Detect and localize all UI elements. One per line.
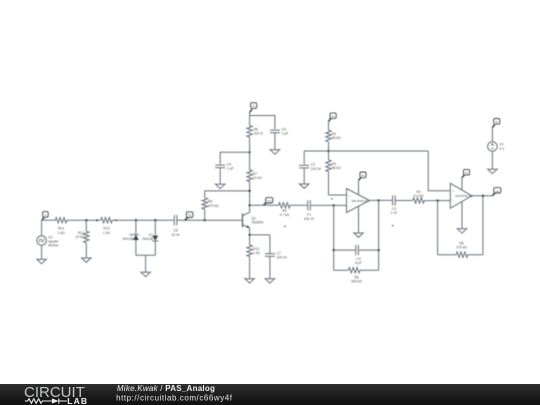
node flag Tin — [185, 212, 193, 220]
wire R7 top — [249, 152, 251, 170]
wire emitter — [249, 228, 251, 235]
node junction op1 output — [377, 199, 379, 201]
svg-text:100 nF: 100 nF — [311, 167, 322, 171]
svg-text:10 kΩ: 10 kΩ — [75, 235, 84, 239]
node junction emitter — [248, 234, 250, 236]
node junction R12 — [85, 219, 87, 221]
ground C2 — [299, 183, 310, 188]
ground C5 — [215, 184, 226, 189]
svg-text:1N4148: 1N4148 — [122, 237, 133, 241]
svg-text:−: − — [349, 204, 351, 208]
wire R12 bottom — [85, 243, 87, 258]
svg-text:out: out — [495, 189, 499, 193]
wire R6fb row — [334, 269, 379, 271]
resistor R9 — [279, 203, 291, 208]
node flag Tho — [263, 198, 272, 206]
ground R12 — [81, 257, 92, 262]
node flag 9V (R6 top) — [250, 103, 257, 113]
wire op2 ground pin — [461, 202, 463, 229]
svg-text:MCP6L92: MCP6L92 — [352, 199, 370, 203]
wire op1 output — [370, 199, 393, 201]
wire feedback left vertical — [333, 205, 335, 270]
svg-text:9 V: 9 V — [499, 147, 505, 151]
ground C7 — [265, 278, 276, 283]
node flag 9V (op1) — [359, 172, 367, 180]
svg-text:1 kΩ: 1 kΩ — [58, 231, 66, 235]
wire R14 to R13 — [67, 219, 101, 221]
capacitor C7 — [269, 235, 271, 254]
node junction op2 inverting — [436, 199, 438, 201]
wire op2 feedback bottom — [438, 254, 483, 256]
footer bar — [0, 384, 540, 405]
capacitor C3 — [393, 195, 396, 205]
wire V1 bottom — [491, 151, 493, 169]
ground op2 — [457, 228, 468, 233]
resistor R7 — [247, 170, 252, 182]
svg-text:http://circuitlab.com/c66wy4f: http://circuitlab.com/c66wy4f — [116, 394, 233, 403]
ground op1 — [353, 232, 364, 237]
resistor R2 — [328, 121, 330, 130]
capacitor C4 — [356, 245, 359, 255]
wire R8 top to collector — [205, 190, 250, 192]
svg-text:Tin: Tin — [188, 213, 192, 217]
node junction feedback right — [377, 249, 379, 251]
resistor R3 — [328, 151, 330, 160]
ground R10 — [244, 278, 255, 283]
svg-text:48 kHz: 48 kHz — [48, 244, 59, 248]
wire op2 feedback vertical left — [437, 201, 439, 255]
svg-text:Mike.Kwak / PAS_Analog: Mike.Kwak / PAS_Analog — [117, 384, 215, 393]
ground C6 — [270, 149, 281, 154]
svg-text:10 nF: 10 nF — [171, 233, 180, 237]
svg-text:1 µF: 1 µF — [282, 132, 289, 136]
wire C3 to R4 — [395, 200, 413, 202]
svg-text:56 kΩ: 56 kΩ — [332, 166, 341, 170]
node junction feedback left — [333, 249, 335, 251]
node junction inverting input — [333, 204, 335, 206]
ground V3 — [36, 259, 47, 264]
svg-text:9.4 kΩ: 9.4 kΩ — [414, 194, 424, 198]
node junction C5 wire — [248, 151, 250, 153]
svg-text:LAB: LAB — [67, 396, 88, 405]
wire C1 to op-amp — [310, 204, 346, 206]
node junction R8 wire — [248, 190, 250, 192]
svg-text:10 kΩ: 10 kΩ — [253, 176, 262, 180]
wire R12 top — [85, 220, 87, 231]
svg-text:100 nF: 100 nF — [277, 256, 288, 260]
wire C5 bottom — [219, 168, 221, 185]
svg-text:1N4148: 1N4148 — [142, 237, 153, 241]
V3 value label — [48, 236, 59, 248]
capacitor C8 — [174, 215, 177, 225]
wire op2 output — [472, 195, 493, 197]
svg-text:510 Ω: 510 Ω — [254, 132, 264, 136]
wire diode bottoms join — [136, 255, 155, 272]
wire C4 row — [334, 249, 379, 251]
wire V3 top — [41, 220, 43, 236]
stray dot 1 — [284, 225, 286, 227]
diode D0 — [133, 235, 139, 240]
wire C8 to Q1 base — [177, 219, 243, 221]
capacitor C2 — [303, 151, 305, 164]
resistor R14 — [55, 218, 67, 223]
svg-text:MCP6L92: MCP6L92 — [455, 194, 473, 198]
wire collector to R9 — [250, 204, 279, 206]
wire main input — [42, 219, 56, 221]
resistor R13 — [101, 218, 113, 223]
wire D1 bottom — [154, 241, 156, 255]
wire bias rail — [304, 150, 428, 152]
diode D1 — [152, 236, 158, 241]
wire op2 feedback vertical right — [482, 196, 484, 255]
resistor R10 — [249, 235, 251, 245]
svg-text:+: + — [349, 193, 351, 197]
node junction D1 — [154, 219, 156, 221]
wire V1 top — [491, 128, 493, 142]
capacitor C5 — [215, 165, 225, 168]
node flag 9V (op2) — [462, 169, 470, 177]
wire feedback right vertical — [378, 200, 380, 270]
resistor R6 feedback 300k — [348, 268, 360, 273]
node junction bias — [327, 150, 329, 152]
capacitor C1 — [308, 200, 311, 210]
stray dot 2 — [331, 198, 333, 200]
resistor R6 — [249, 137, 251, 152]
svg-text:56 kΩ: 56 kΩ — [332, 136, 341, 140]
wire R3 to + input — [329, 194, 347, 196]
transistor Q1 — [243, 212, 250, 228]
node flag in — [42, 212, 48, 220]
ground diodes — [140, 272, 151, 277]
svg-text:270 kΩ: 270 kΩ — [456, 246, 467, 250]
wire R13 to C8 — [112, 219, 174, 221]
node flag out — [492, 188, 501, 196]
svg-text:1 kΩ: 1 kΩ — [103, 231, 111, 235]
svg-text:1 nF: 1 nF — [391, 211, 398, 215]
svg-text:1 µF: 1 µF — [227, 167, 234, 171]
capacitor C6 — [270, 130, 280, 133]
wire bias to + input — [428, 151, 450, 191]
wire op1 ground pin — [358, 206, 360, 233]
svg-text:+: + — [453, 189, 455, 193]
wire emitter to C7 — [250, 234, 270, 236]
voltage source V1 — [488, 142, 498, 152]
resistor R8 — [204, 209, 206, 220]
resistor R12 — [84, 231, 89, 243]
wire collector vertical — [249, 181, 251, 212]
wire D0 top — [135, 220, 137, 234]
node flag 9V (V1 top) — [492, 119, 499, 128]
node junction R8 — [204, 219, 206, 221]
resistor R5 feedback 270k — [456, 252, 468, 257]
stray dot 3 — [392, 225, 394, 227]
op-amp U2 MCP6L92 — [450, 183, 473, 208]
op-amp U1 MCP6L92 — [347, 189, 370, 213]
svg-text:8 pF: 8 pF — [355, 261, 362, 265]
wire D1 top — [154, 220, 156, 235]
svg-text:Tho: Tho — [267, 199, 272, 203]
svg-text:300 kΩ: 300 kΩ — [351, 280, 362, 284]
wire D0 bottom — [135, 240, 137, 255]
node junction op2 output — [482, 195, 484, 197]
wire R4 to - input — [424, 200, 450, 202]
svg-text:2N3904: 2N3904 — [251, 221, 263, 225]
svg-text:−: − — [453, 199, 455, 203]
wire op2 power pin — [461, 177, 463, 190]
wire op1 power pin — [358, 180, 360, 195]
ground V1 — [487, 169, 498, 174]
svg-text:4.7 kΩ: 4.7 kΩ — [279, 213, 289, 217]
voltage source V3 — [37, 236, 47, 246]
node flag 9V (R2 top) — [329, 113, 337, 122]
wire to C5 — [220, 152, 249, 164]
wire top rail to C6 — [250, 116, 275, 130]
resistor R4 — [413, 198, 425, 203]
wire R9 to C1 — [290, 204, 307, 206]
node junction collector out — [248, 204, 250, 206]
wire V3 bottom — [41, 245, 43, 259]
svg-text:470 kΩ: 470 kΩ — [208, 204, 219, 208]
svg-text:1 kΩ: 1 kΩ — [253, 251, 261, 255]
svg-text:100 nF: 100 nF — [304, 217, 315, 221]
node junction D0 — [135, 219, 137, 221]
wire C6 bottom — [274, 133, 276, 150]
